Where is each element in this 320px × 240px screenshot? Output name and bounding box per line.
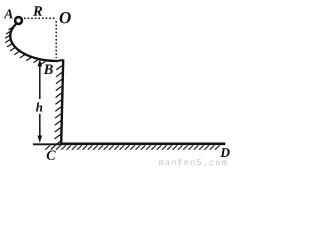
watermark manfen5.com xyxy=(159,160,164,165)
node A label xyxy=(4,9,13,18)
dimension arrowhead up at B xyxy=(38,59,43,67)
curved track A-B (quarter arc) xyxy=(10,24,57,61)
hatching on wall xyxy=(54,66,62,146)
node D label xyxy=(220,148,230,157)
dimension arrowhead down at floor xyxy=(38,136,43,144)
circle center label O xyxy=(60,12,71,23)
ground line left of C xyxy=(33,143,62,145)
track end joining wall top at B xyxy=(57,60,64,61)
ball at point A xyxy=(15,17,22,24)
hatching on curved track xyxy=(5,26,47,64)
wall B-C xyxy=(61,60,63,144)
dotted vertical line O-B xyxy=(55,21,57,58)
height dimension line h upper segment xyxy=(39,63,41,99)
hatching under floor xyxy=(45,145,219,149)
height dimension line h lower segment xyxy=(39,114,41,137)
node B label xyxy=(44,65,53,75)
dotted radius line A-O xyxy=(24,17,57,19)
radius label R xyxy=(33,6,42,15)
height label h xyxy=(36,102,42,111)
floor C-D xyxy=(60,143,225,146)
node C label xyxy=(47,151,56,160)
